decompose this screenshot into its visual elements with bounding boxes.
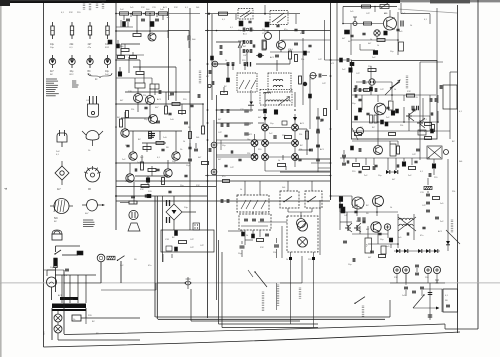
svg-text:1k: 1k (286, 259, 288, 261)
svg-text:22k: 22k (452, 191, 455, 193)
svg-text:220: 220 (247, 153, 250, 155)
svg-text:1k: 1k (225, 60, 227, 62)
svg-text:1k: 1k (394, 89, 396, 91)
svg-text:BC: BC (54, 221, 57, 223)
svg-text:4k7: 4k7 (88, 43, 93, 46)
svg-text:22k: 22k (400, 125, 403, 127)
svg-text:22k: 22k (131, 109, 134, 111)
svg-text:22k: 22k (299, 134, 302, 136)
svg-text:1k: 1k (278, 160, 280, 162)
svg-text:AC1: AC1 (243, 33, 247, 36)
svg-text:1k: 1k (390, 207, 392, 209)
svg-text:BC: BC (117, 117, 120, 119)
svg-text:47n: 47n (288, 49, 291, 51)
svg-text:AC1: AC1 (249, 133, 253, 136)
svg-text:1k: 1k (183, 141, 185, 143)
svg-text:22k: 22k (70, 299, 73, 301)
svg-text:22k: 22k (301, 59, 304, 61)
svg-text:10µ: 10µ (70, 71, 75, 73)
svg-text:C47: C47 (243, 55, 246, 57)
svg-text:1k: 1k (240, 189, 242, 191)
svg-text:C31: C31 (249, 111, 252, 113)
svg-text:22k: 22k (273, 252, 276, 254)
svg-text:47n: 47n (365, 244, 367, 247)
svg-text:47n: 47n (420, 235, 423, 237)
svg-text:47n: 47n (122, 135, 125, 137)
svg-text:10µ: 10µ (50, 43, 55, 46)
svg-text:10µ: 10µ (105, 71, 110, 73)
svg-text:47n: 47n (222, 176, 225, 178)
svg-text:BC: BC (88, 71, 92, 73)
svg-text:47n: 47n (148, 265, 151, 267)
svg-text:4k7: 4k7 (243, 46, 246, 48)
svg-text:47n: 47n (284, 29, 287, 31)
svg-text:1k: 1k (377, 45, 379, 47)
svg-text:22k: 22k (143, 95, 146, 97)
svg-text:1k: 1k (246, 235, 248, 237)
svg-text:22k: 22k (246, 51, 249, 53)
svg-text:BC: BC (50, 74, 53, 76)
svg-text:47n: 47n (424, 131, 427, 133)
svg-text:47n: 47n (250, 29, 253, 31)
svg-text:47n: 47n (300, 33, 303, 35)
svg-text:1k: 1k (410, 25, 412, 27)
